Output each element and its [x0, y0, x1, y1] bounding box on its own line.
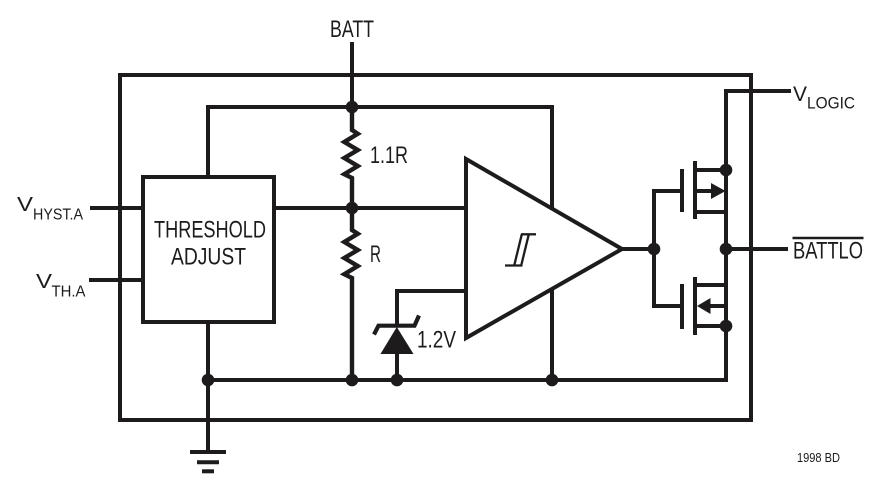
ground bar 3	[202, 469, 214, 473]
wire VTH.A input	[89, 278, 143, 282]
wire bottom rail and output bus	[208, 91, 791, 380]
transistor Q1 source stub	[695, 168, 726, 172]
junction BATTLO node	[720, 243, 733, 256]
IC outline	[120, 75, 751, 420]
svg-text:V: V	[793, 82, 808, 106]
transistor Q1 PMOS channel bar	[693, 161, 697, 219]
transistor Q1 PMOS gate bar	[680, 169, 684, 212]
zener diode cathode bar	[374, 316, 419, 335]
svg-text:1.1R: 1.1R	[370, 142, 408, 169]
transistor Q1 bulk arrow	[695, 189, 712, 193]
transistor Q2 bulk arrowhead	[697, 298, 711, 314]
svg-text:BATT: BATT	[330, 16, 374, 43]
transistor Q1 drain stub	[695, 210, 726, 214]
svg-text:LOGIC: LOGIC	[807, 95, 855, 113]
wire comparator output	[622, 247, 654, 251]
svg-text:BATTLO: BATTLO	[793, 238, 863, 265]
svg-text:V: V	[17, 193, 33, 216]
wire gate rail	[654, 191, 682, 306]
junction BATT node	[346, 101, 359, 114]
threshold adjust block	[143, 177, 274, 322]
wire divider rail to comparator input	[274, 206, 464, 210]
svg-text:1.2V: 1.2V	[417, 327, 456, 354]
transistor Q2 drain stub	[695, 283, 726, 287]
ground bar 2	[197, 460, 219, 464]
transistor Q1 bulk arrowhead	[711, 183, 726, 199]
junction Q2 source node	[720, 320, 733, 333]
transistor Q2 bulk wire	[710, 304, 726, 308]
wire VHYST.A input	[90, 206, 143, 210]
junction divider node	[346, 202, 359, 215]
zener diode 1.2V wire to comparator	[397, 291, 464, 326]
wire BATT	[350, 42, 354, 109]
ground bar 1	[190, 450, 226, 454]
junction zener anode node	[391, 374, 404, 387]
resistor 1.1R	[344, 107, 358, 208]
wire BATTLO output	[726, 247, 788, 251]
resistor R	[344, 208, 358, 380]
svg-text:HYST.A: HYST.A	[33, 207, 83, 224]
junction comparator output node	[648, 243, 661, 256]
transistor Q2 NMOS channel bar	[693, 277, 697, 335]
comparator U1	[466, 159, 622, 338]
junction comparator ground node	[546, 374, 559, 387]
wire top rail to comparator supply	[208, 107, 552, 382]
svg-text:V: V	[36, 270, 52, 293]
svg-text:THRESHOLD: THRESHOLD	[154, 217, 266, 244]
transistor Q2 source stub	[695, 324, 726, 328]
pin BATTLO overline	[793, 237, 864, 239]
transistor Q2 NMOS gate bar	[680, 284, 684, 329]
svg-text:ADJUST: ADJUST	[171, 244, 246, 271]
svg-text:TH.A: TH.A	[52, 284, 86, 301]
hysteresis symbol	[505, 234, 536, 265]
wire threshold block to ground	[206, 322, 210, 452]
svg-text:R: R	[370, 241, 381, 268]
junction Q1 source node	[720, 164, 733, 177]
zener diode anode triangle	[381, 327, 414, 354]
junction R bottom node	[346, 374, 359, 387]
junction threshold ground node	[202, 374, 215, 387]
zener diode anode lead	[395, 352, 399, 380]
svg-text:1998 BD: 1998 BD	[797, 450, 840, 465]
